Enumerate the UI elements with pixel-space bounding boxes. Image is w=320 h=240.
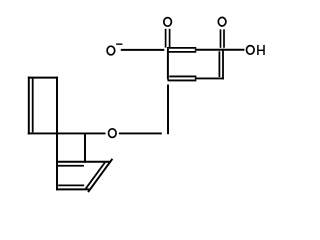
carboxylate charge minus bar	[116, 43, 122, 45]
bond O- to carboxylate C	[121, 49, 165, 51]
ring A left edge bond	[167, 49, 169, 80]
ring1 left C=C double bond	[28, 77, 30, 135]
linker CH2 vertical bond	[167, 85, 169, 135]
C=O double bond left	[165, 29, 167, 48]
ring A bottom single bond	[195, 77, 224, 79]
atom label ether O	[109, 129, 117, 138]
atom label O- (carboxylate oxygen)	[107, 46, 115, 55]
atom label O (left carbonyl)	[164, 18, 172, 27]
ring A bottom C=C double bond	[169, 75, 196, 77]
ring2 vertical bond at x85	[84, 133, 86, 163]
ring A right C=C double bond	[222, 49, 224, 80]
aryl bond from ether O + ring1 bottom edge	[28, 132, 106, 134]
shared fused-ring vertical bond	[56, 77, 58, 191]
ring1 top edge bond	[28, 77, 58, 79]
ring2 slanted C=C double bond	[88, 159, 112, 192]
ring2 top double bond	[56, 161, 111, 163]
ring A top C=C double bond	[167, 47, 196, 49]
C=O double bond right	[220, 29, 222, 47]
linker bond to ether O	[119, 132, 162, 134]
atom label O of OH	[247, 46, 255, 55]
ring A top single bond + bond to OH	[195, 49, 245, 51]
ring2 bottom double bond	[56, 188, 89, 190]
atom label O (right carbonyl)	[218, 17, 226, 26]
atom label H of OH	[257, 45, 259, 55]
